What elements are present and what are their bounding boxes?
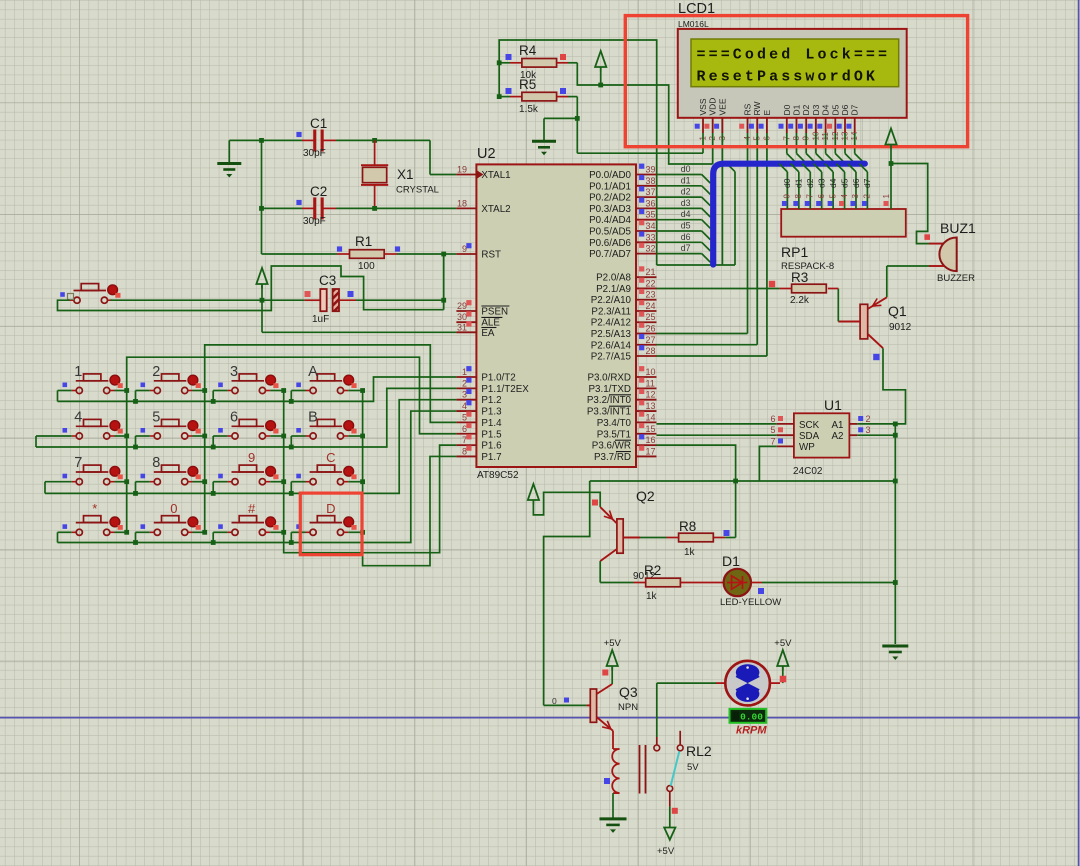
pin 7 WP [777, 445, 794, 447]
svg-text:Q1: Q1 [888, 303, 907, 319]
wire [721, 133, 723, 142]
svg-text:P3.4/T0: P3.4/T0 [597, 418, 632, 429]
node [124, 434, 129, 439]
wire [336, 207, 456, 209]
wire d6 [657, 241, 702, 243]
push button C [296, 474, 301, 479]
svg-text:P0.6/AD6: P0.6/AD6 [589, 238, 631, 249]
svg-text:13: 13 [646, 401, 656, 411]
svg-text:D6: D6 [840, 104, 850, 115]
pin 5 SDA [777, 434, 794, 436]
svg-text:CRYSTAL: CRYSTAL [396, 185, 439, 196]
svg-text:X1: X1 [397, 167, 414, 182]
node [259, 206, 264, 211]
blue square (RL2) [604, 778, 610, 784]
pin P1.6 [456, 444, 476, 446]
svg-text:RL2: RL2 [686, 743, 712, 759]
svg-text:d4: d4 [828, 178, 838, 188]
svg-text:D4: D4 [821, 104, 831, 115]
svg-text:31: 31 [457, 322, 467, 332]
svg-text:D7: D7 [850, 104, 860, 115]
svg-text:PSEN: PSEN [481, 307, 508, 318]
node [441, 298, 446, 303]
svg-text:E: E [762, 110, 772, 116]
svg-text:100: 100 [358, 261, 375, 272]
wire [356, 299, 444, 301]
svg-text:P0.2/AD2: P0.2/AD2 [589, 193, 631, 204]
wire [136, 390, 150, 392]
push button 5 [141, 428, 146, 433]
relay RL2 coil [612, 731, 614, 749]
sheet border line [0, 717, 1080, 719]
svg-text:RP1: RP1 [781, 244, 808, 260]
svg-text:P2.2/A10: P2.2/A10 [591, 295, 632, 306]
red square (motor) [780, 676, 787, 683]
wire (A2) [857, 434, 895, 436]
wire [669, 807, 671, 828]
pin P2.6 [636, 344, 657, 346]
pin P3.3 [636, 410, 657, 412]
resistor R5 [499, 96, 510, 98]
lcd pin 4 RS [747, 118, 749, 133]
node [360, 479, 365, 484]
lcd pin 7 D0 [786, 118, 788, 133]
node [259, 138, 264, 143]
svg-text:R2: R2 [644, 563, 661, 578]
wire (P3.6) [657, 445, 736, 537]
svg-text:D5: D5 [830, 104, 840, 115]
svg-text:5: 5 [770, 425, 775, 435]
pin ALE [456, 321, 476, 323]
svg-text:P3.5/T1: P3.5/T1 [597, 429, 631, 440]
blue square (R8) [724, 530, 730, 536]
node [893, 580, 898, 585]
power +5V terminal [256, 268, 267, 284]
svg-text:D1: D1 [722, 553, 740, 569]
svg-text:1.5k: 1.5k [519, 104, 539, 115]
pin PSEN [456, 310, 476, 312]
blue square (R1 left) [337, 246, 342, 251]
svg-text:8: 8 [794, 194, 803, 199]
node [360, 530, 365, 535]
wire [291, 435, 305, 437]
svg-text:U2: U2 [477, 146, 496, 162]
wire (P3.4-SCK) [657, 423, 777, 425]
svg-text:19: 19 [457, 165, 467, 175]
node [497, 94, 502, 99]
pin 6 SCK [777, 423, 794, 425]
ic U1 body [794, 413, 850, 457]
wire [262, 253, 338, 255]
wire [533, 492, 600, 515]
node (C1/X1) [372, 138, 377, 143]
svg-text:7: 7 [462, 435, 467, 445]
wire [834, 133, 836, 154]
wire [136, 481, 150, 483]
wire [193, 390, 205, 392]
svg-text:9: 9 [462, 244, 467, 254]
wire (EA net) [261, 300, 263, 332]
led D1 [724, 569, 751, 596]
wire [193, 481, 205, 483]
wire [702, 133, 704, 153]
relay RL2 contacts [656, 737, 658, 745]
svg-text:1: 1 [882, 194, 891, 199]
svg-text:21: 21 [646, 267, 656, 277]
respack pin 9 [786, 172, 788, 209]
svg-text:15: 15 [646, 424, 656, 434]
wire [115, 531, 127, 533]
wire [805, 133, 807, 154]
pin P0.0 [636, 174, 657, 176]
buzzer BUZ1 [929, 243, 944, 245]
svg-text:C1: C1 [310, 116, 327, 131]
wire [786, 133, 788, 154]
respack pin 1 [890, 164, 892, 210]
svg-text:4: 4 [840, 194, 849, 199]
svg-text:VEE: VEE [717, 98, 727, 115]
push button (reset) [60, 292, 65, 297]
pin P1.0 [456, 376, 476, 378]
svg-text:10: 10 [646, 367, 656, 377]
svg-text:18: 18 [457, 198, 467, 208]
svg-text:SDA: SDA [799, 431, 820, 442]
node [133, 491, 138, 496]
svg-text:2: 2 [152, 364, 160, 380]
svg-text:11: 11 [646, 378, 655, 388]
wire [261, 284, 263, 300]
node [133, 445, 138, 450]
svg-text:2: 2 [462, 378, 467, 388]
node [211, 491, 216, 496]
wire (keypad row bus) [36, 388, 456, 447]
node [733, 479, 738, 484]
svg-text:P3.1/TXD: P3.1/TXD [589, 384, 631, 395]
node [281, 434, 286, 439]
capacitor C3 [305, 299, 321, 301]
respack pin 3 [855, 172, 857, 209]
pin P3.6 [636, 444, 657, 446]
svg-text:1uF: 1uF [312, 314, 329, 325]
pin P2.4 [636, 321, 657, 323]
pin P2.5 [636, 333, 657, 335]
svg-text:14: 14 [646, 412, 656, 422]
svg-text:P2.3/A11: P2.3/A11 [591, 306, 631, 317]
wire [599, 561, 601, 582]
wire [600, 72, 602, 86]
wire (VEE area) [657, 264, 735, 266]
svg-text:4: 4 [462, 401, 467, 411]
svg-text:P2.1/A9: P2.1/A9 [596, 284, 631, 295]
wire [213, 531, 227, 533]
svg-text:8: 8 [462, 446, 467, 456]
svg-text:R1: R1 [355, 234, 372, 249]
transistor Q3 [590, 689, 596, 722]
push button 2 [141, 383, 146, 388]
pin P2.1 [636, 287, 657, 289]
push button 3 [218, 383, 223, 388]
svg-text:8: 8 [152, 455, 160, 471]
pin P1.3 [456, 410, 476, 412]
svg-text:P2.7/A15: P2.7/A15 [591, 352, 632, 363]
pin P3.5 [636, 433, 657, 435]
node [889, 161, 894, 166]
svg-text:0: 0 [170, 501, 177, 516]
pin P0.2 [636, 196, 657, 198]
svg-text:P1.1/T2EX: P1.1/T2EX [481, 384, 529, 395]
wire d1 [657, 185, 702, 187]
node [893, 422, 898, 427]
svg-text:39: 39 [646, 165, 656, 175]
svg-text:P1.2: P1.2 [481, 395, 501, 406]
pin P3.0 [636, 376, 657, 378]
power +5V terminal [595, 51, 606, 67]
lcd pin 9 D2 [805, 118, 807, 133]
push button A [296, 383, 301, 388]
wire [115, 481, 127, 483]
svg-text:P3.0/RXD: P3.0/RXD [587, 373, 631, 384]
lcd pin 5 RW [756, 118, 758, 133]
svg-text:3: 3 [462, 390, 467, 400]
pin 3 A2 [849, 434, 857, 436]
wire [45, 481, 72, 483]
lcd pin 2 VDD [712, 118, 714, 133]
pin P0.1 [636, 185, 657, 187]
power +5V terminal [885, 129, 896, 145]
push button 0 [141, 524, 146, 529]
pin 2 A1 [849, 423, 857, 425]
lcd pin 8 D1 [796, 118, 798, 133]
svg-text:U1: U1 [824, 397, 842, 413]
svg-text:4: 4 [74, 410, 82, 426]
wire [844, 133, 846, 154]
wire [115, 435, 127, 437]
svg-text:P1.5: P1.5 [481, 429, 502, 440]
wire [751, 582, 762, 584]
svg-text:d3: d3 [816, 178, 826, 188]
svg-text:9: 9 [248, 450, 255, 465]
svg-text:+5V: +5V [604, 638, 622, 649]
wire [291, 481, 305, 483]
node [211, 540, 216, 545]
node [133, 540, 138, 545]
svg-text:5: 5 [828, 194, 837, 199]
wire [444, 253, 457, 255]
svg-text:22: 22 [646, 278, 656, 288]
wire [58, 531, 72, 533]
wire [576, 97, 578, 154]
capacitor C2 [302, 207, 315, 209]
selection box (LCD1) [625, 16, 967, 147]
resistor R4 [499, 62, 510, 64]
red square (R4) [560, 54, 566, 60]
resistor R2 [634, 582, 646, 584]
motor [716, 682, 725, 684]
blue square (C1) [296, 132, 301, 137]
wire [656, 683, 658, 737]
svg-text:B: B [308, 410, 318, 426]
respack pin 2 [866, 172, 868, 209]
node [289, 491, 294, 496]
node [124, 479, 129, 484]
svg-text:WP: WP [799, 442, 815, 453]
node [260, 298, 265, 303]
wire (RW) [756, 133, 758, 345]
ground [882, 645, 908, 648]
svg-text:P0.3/AD3: P0.3/AD3 [589, 204, 631, 215]
svg-text:D: D [326, 501, 335, 516]
wire [348, 531, 362, 533]
rpm display [730, 709, 767, 723]
push button B [296, 428, 301, 433]
svg-text:26: 26 [646, 324, 656, 334]
svg-text:1: 1 [74, 364, 82, 380]
svg-text:A: A [308, 364, 318, 380]
svg-text:d7: d7 [862, 178, 872, 188]
wire (keypad row bus) [45, 400, 456, 494]
wire (E) [766, 133, 768, 356]
svg-text:24C02: 24C02 [793, 466, 823, 477]
svg-text:3: 3 [866, 425, 871, 435]
svg-text:5: 5 [462, 412, 467, 422]
svg-text:#: # [248, 501, 256, 516]
wire [815, 133, 817, 154]
selection box (key D) [300, 493, 362, 555]
svg-text:9: 9 [783, 194, 792, 199]
lcd pin 11 D4 [825, 118, 827, 133]
svg-text:BUZ1: BUZ1 [940, 220, 976, 236]
wire [36, 435, 72, 437]
svg-text:d1: d1 [794, 178, 804, 188]
ic U2 body [476, 164, 636, 467]
node [281, 530, 286, 535]
svg-text:D0: D0 [782, 104, 792, 115]
wire d0 [657, 174, 702, 176]
svg-text:R8: R8 [679, 519, 696, 534]
pin P0.5 [636, 230, 657, 232]
node [133, 399, 138, 404]
red square (Q2) [592, 500, 598, 506]
svg-text:7: 7 [805, 194, 814, 199]
wire [193, 435, 205, 437]
lcd pin 6 E [766, 118, 768, 133]
svg-text:D1: D1 [792, 104, 802, 115]
wire [782, 666, 784, 683]
wire [499, 40, 657, 265]
node [124, 530, 129, 535]
lcd pin 14 D7 [854, 118, 856, 133]
wire [348, 481, 362, 483]
svg-text:+5V: +5V [774, 638, 792, 649]
svg-text:P2.0/A8: P2.0/A8 [596, 273, 631, 284]
svg-text:D2: D2 [801, 104, 811, 115]
node [598, 83, 603, 88]
node [893, 433, 898, 438]
wire [229, 139, 302, 141]
node [211, 399, 216, 404]
wire [270, 390, 284, 392]
svg-text:d6: d6 [681, 232, 691, 242]
wire [712, 133, 714, 164]
wire d4 [657, 219, 702, 221]
wire [115, 390, 127, 392]
resistor R8 [725, 537, 736, 539]
pin P0.6 [636, 241, 657, 243]
ground [600, 817, 627, 820]
svg-text:5: 5 [152, 410, 160, 426]
blue square (R5 left) [506, 88, 512, 94]
svg-text:P2.4/A12: P2.4/A12 [591, 318, 631, 329]
svg-text:0.00: 0.00 [740, 712, 763, 723]
svg-text:*: * [92, 501, 97, 516]
wire (reset loop) [58, 266, 444, 311]
svg-text:P2.6/A14: P2.6/A14 [591, 340, 632, 351]
push button D [296, 524, 301, 529]
node [893, 479, 898, 484]
red square (RL2) [672, 808, 678, 814]
svg-text:6: 6 [230, 410, 238, 426]
wire [887, 265, 929, 267]
wire [111, 299, 263, 301]
pin P2.7 [636, 355, 657, 357]
svg-text:P3.3/INT1: P3.3/INT1 [587, 407, 631, 418]
wire (motor feed) [657, 682, 716, 684]
blue square (C3) [348, 291, 354, 297]
svg-text:27: 27 [646, 335, 656, 345]
wire (RS) [747, 133, 749, 334]
pin P1.5 [456, 433, 476, 435]
svg-text:AT89C52: AT89C52 [477, 470, 519, 481]
wire d7 [657, 253, 702, 255]
lcd pin 3 VEE [721, 118, 723, 133]
blue square (C2) [296, 200, 301, 205]
wire [213, 435, 227, 437]
wire (keypad row bus) [58, 411, 457, 542]
transistor Q1 [860, 304, 868, 339]
svg-text:35: 35 [646, 210, 656, 220]
wire [262, 299, 305, 301]
node [124, 388, 129, 393]
svg-text:P1.0/T2: P1.0/T2 [481, 373, 515, 384]
svg-text:2: 2 [863, 194, 872, 199]
svg-text:5V: 5V [687, 762, 699, 773]
respack RP1 body [781, 209, 906, 237]
svg-text:VDD: VDD [708, 98, 718, 116]
wire [348, 435, 362, 437]
svg-text:d7: d7 [681, 243, 691, 253]
svg-text:7: 7 [74, 455, 82, 471]
svg-text:3: 3 [851, 194, 860, 199]
push button # [218, 524, 223, 529]
svg-text:C3: C3 [319, 273, 336, 288]
svg-text:RW: RW [752, 101, 762, 115]
svg-text:6: 6 [817, 194, 826, 199]
push button 6 [218, 428, 223, 433]
wire [58, 390, 72, 392]
wire (keypad col 1) [127, 357, 457, 532]
push button 8 [141, 474, 146, 479]
svg-text:C2: C2 [310, 184, 327, 199]
svg-text:6: 6 [770, 414, 775, 424]
svg-text:SCK: SCK [799, 420, 820, 431]
respack pin 6 [821, 172, 823, 209]
node [575, 116, 580, 121]
wire d5 [657, 230, 702, 232]
power +5V terminal [528, 484, 539, 500]
svg-text:A2: A2 [832, 431, 844, 442]
wire (P3.5-SDA) [657, 434, 777, 436]
svg-text:P1.4: P1.4 [481, 418, 502, 429]
